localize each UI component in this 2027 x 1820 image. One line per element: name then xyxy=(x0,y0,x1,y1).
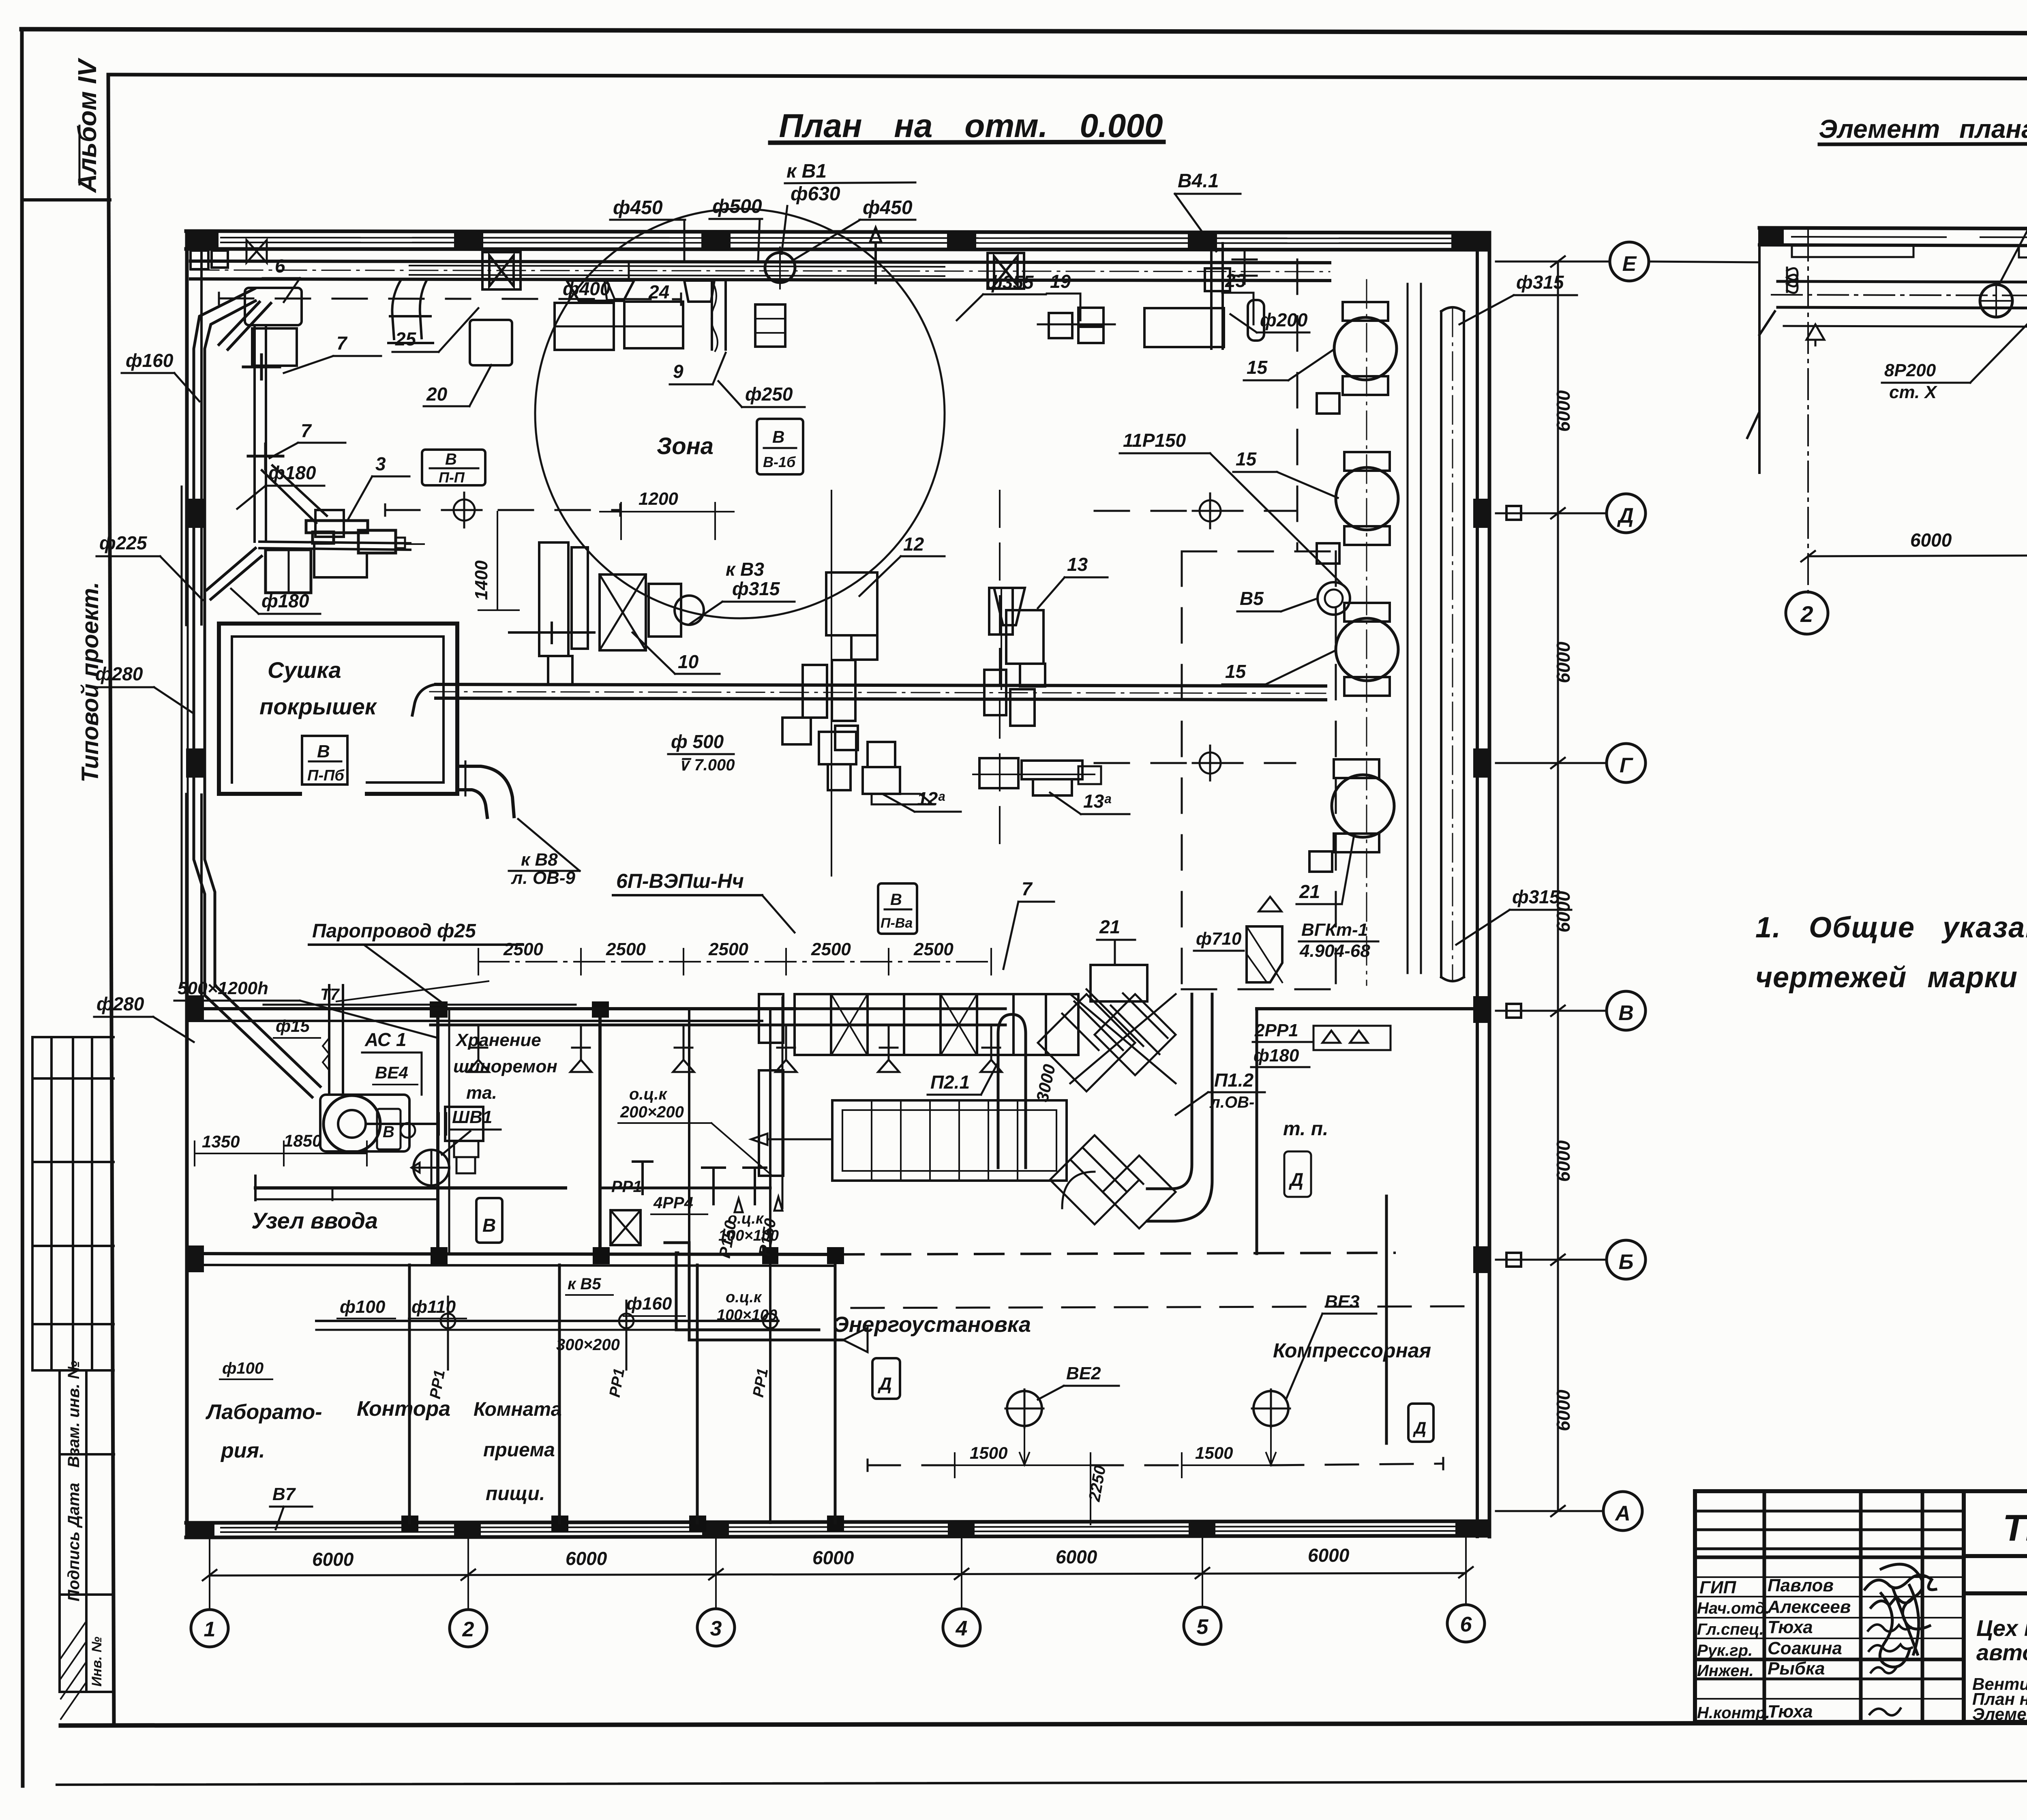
svg-text:10: 10 xyxy=(678,651,699,672)
connector from axis E xyxy=(1649,262,1759,262)
dashed vertical near right wall xyxy=(1296,259,1298,551)
right wall xyxy=(1476,233,1479,1537)
svg-text:План на отм. 0.000: План на отм. 0.000 xyxy=(779,107,1163,144)
svg-text:П2.1: П2.1 xyxy=(930,1072,970,1093)
dim row 2500s xyxy=(478,961,991,963)
svg-text:Хранение: Хранение xyxy=(455,1030,541,1050)
svg-text:Д: Д xyxy=(1413,1418,1426,1437)
svg-text:15: 15 xyxy=(1247,357,1268,378)
svg-text:9: 9 xyxy=(673,361,684,382)
svg-text:В: В xyxy=(383,1123,394,1141)
circle f630 xyxy=(765,253,795,283)
svg-text:6000: 6000 xyxy=(1056,1546,1097,1567)
svg-text:25: 25 xyxy=(395,328,417,349)
2RR1 unit xyxy=(1251,1020,1391,1067)
left outer border xyxy=(22,29,23,1786)
top outer border xyxy=(21,29,2027,34)
svg-text:В-1б: В-1б xyxy=(763,454,796,470)
svg-text:6000: 6000 xyxy=(1553,641,1574,683)
small rooms with x-box xyxy=(556,1085,868,1354)
svg-text:Сушка: Сушка xyxy=(268,657,341,683)
dashed midline lower band xyxy=(868,1464,955,1466)
svg-text:21: 21 xyxy=(1099,916,1120,937)
svg-text:В5: В5 xyxy=(1240,588,1264,609)
svg-text:Е: Е xyxy=(1622,252,1637,276)
svg-text:к В8: к В8 xyxy=(521,850,558,870)
risers РР1 at partitions xyxy=(441,1297,778,1370)
axis bubbles xyxy=(1786,590,2027,634)
svg-text:л.ОВ-: л.ОВ- xyxy=(1209,1093,1254,1111)
inner riser duct xyxy=(253,328,256,542)
svg-text:В: В xyxy=(445,450,457,468)
svg-text:к В1: к В1 xyxy=(786,161,827,182)
duct jog center xyxy=(665,1243,843,1340)
svg-text:пищи.: пищи. xyxy=(486,1483,545,1505)
svg-text:6000: 6000 xyxy=(1308,1545,1350,1566)
svg-text:к В5: к В5 xyxy=(568,1275,601,1293)
left elbow into hall xyxy=(392,281,426,339)
svg-text:Цех по ремонту: Цех по ремонту xyxy=(1976,1615,2027,1641)
svg-text:В: В xyxy=(317,742,330,761)
upper cell row xyxy=(795,994,1078,1055)
svg-text:ф630: ф630 xyxy=(791,183,840,205)
svg-text:рия.: рия. xyxy=(220,1439,265,1462)
svg-text:2: 2 xyxy=(1800,601,1813,627)
small vertical arrow at 2160 wall xyxy=(870,228,881,283)
labels above xyxy=(563,161,1308,330)
svg-text:В4.1: В4.1 xyxy=(1178,170,1219,192)
svg-text:покрышек: покрышек xyxy=(259,694,377,719)
svg-text:В7: В7 xyxy=(272,1484,296,1504)
svg-text:6: 6 xyxy=(275,255,285,277)
svg-text:ВЕ3: ВЕ3 xyxy=(1325,1292,1360,1312)
svg-text:Лаборато-: Лаборато- xyxy=(205,1400,322,1424)
svg-text:ф280: ф280 xyxy=(95,663,143,684)
upper stamp table xyxy=(32,1037,114,1370)
svg-text:ГИП: ГИП xyxy=(1699,1578,1737,1597)
svg-text:ф450: ф450 xyxy=(613,197,663,219)
duct with drops xyxy=(431,1008,1005,1010)
svg-text:2500: 2500 xyxy=(503,939,543,959)
svg-text:2500: 2500 xyxy=(811,939,851,959)
svg-text:4РР4: 4РР4 xyxy=(653,1194,693,1212)
khranenie room xyxy=(411,1030,557,1243)
svg-text:ф200: ф200 xyxy=(1260,309,1308,330)
window sill rects on wall xyxy=(1792,246,1913,257)
transitions xyxy=(604,261,629,300)
svg-text:6000: 6000 xyxy=(312,1549,354,1570)
svg-text:ф280: ф280 xyxy=(96,993,144,1014)
svg-text:Элемент плана на отм. 5.800: Элемент плана на отм. 5.800 xyxy=(1819,114,2027,144)
page bottom edge line xyxy=(57,1781,2027,1785)
item 23 xyxy=(1144,308,1224,347)
vertical partitions upper room band xyxy=(436,1009,439,1254)
tag В/В-1б xyxy=(757,419,803,474)
top wall outer xyxy=(186,231,1489,233)
svg-text:ф 500: ф 500 xyxy=(671,731,724,752)
svg-text:ф450: ф450 xyxy=(863,197,913,219)
diagonal branch to item 3 xyxy=(207,548,261,599)
svg-text:1200: 1200 xyxy=(639,489,678,509)
svg-text:ф400: ф400 xyxy=(563,278,611,299)
note xyxy=(1755,911,2027,994)
AC1 fan unit xyxy=(320,1095,409,1151)
tag В/П-П xyxy=(422,450,485,486)
album cell divider xyxy=(22,198,110,202)
svg-text:ф315: ф315 xyxy=(732,578,780,599)
vertical dim line xyxy=(1557,262,1559,1511)
svg-text:к В3: к В3 xyxy=(726,559,764,580)
svg-text:6000: 6000 xyxy=(812,1547,854,1568)
left side boxes of chamber xyxy=(759,994,783,1043)
tag В/П-Ва xyxy=(878,883,917,934)
building walls xyxy=(186,231,1490,1538)
svg-text:та.: та. xyxy=(466,1083,497,1103)
svg-text:2500: 2500 xyxy=(606,939,646,959)
svg-text:Комната: Комната xyxy=(474,1399,562,1420)
svg-text:Б: Б xyxy=(1619,1250,1634,1274)
svg-text:19: 19 xyxy=(1050,271,1071,292)
svg-text:ф160: ф160 xyxy=(626,1294,672,1314)
svg-text:100×100: 100×100 xyxy=(718,1227,779,1244)
svg-text:ф100: ф100 xyxy=(340,1297,386,1317)
top wall window lines xyxy=(221,238,1463,238)
svg-text:1400: 1400 xyxy=(471,560,491,600)
svg-text:приема: приема xyxy=(483,1439,555,1461)
sushka room xyxy=(219,624,580,888)
svg-text:В: В xyxy=(482,1215,496,1236)
svg-text:1. Общие указания и ведомость: 1. Общие указания и ведомость xyxy=(1755,911,2027,944)
svg-text:ВЕ4: ВЕ4 xyxy=(375,1063,408,1082)
svg-text:АС 1: АС 1 xyxy=(364,1029,407,1050)
svg-text:6000: 6000 xyxy=(1553,1140,1574,1182)
axis bubbles xyxy=(191,1605,1485,1647)
svg-text:2РР1: 2РР1 xyxy=(1254,1020,1298,1040)
svg-text:200×200: 200×200 xyxy=(620,1103,684,1121)
svg-text:Узел ввода: Узел ввода xyxy=(251,1208,378,1233)
fan bowtie left xyxy=(489,255,514,286)
inner frame top xyxy=(108,75,2027,79)
top wall piers xyxy=(186,231,1489,251)
svg-text:15: 15 xyxy=(1225,661,1247,682)
B tag box xyxy=(476,1198,502,1243)
svg-text:1350: 1350 xyxy=(202,1132,240,1151)
svg-text:ф250: ф250 xyxy=(745,384,793,405)
svg-text:ф15: ф15 xyxy=(276,1016,310,1035)
svg-text:500×1200h: 500×1200h xyxy=(178,978,268,998)
right fan column xyxy=(1120,272,1577,1067)
svg-text:20: 20 xyxy=(426,384,448,405)
svg-text:ф160: ф160 xyxy=(126,350,174,371)
svg-text:6000: 6000 xyxy=(1553,891,1574,933)
bottom axes xyxy=(191,1536,1485,1647)
svg-text:Подпись Дата: Подпись Дата xyxy=(65,1483,83,1601)
svg-text:Н.контр.: Н.контр. xyxy=(1697,1704,1770,1722)
svg-text:В: В xyxy=(890,891,902,909)
spring symbol xyxy=(1787,268,1798,293)
svg-text:Рыбка: Рыбка xyxy=(1768,1659,1825,1679)
svg-text:ф180: ф180 xyxy=(268,462,316,483)
vertical duct right of chamber xyxy=(1147,994,1192,1189)
svg-text:ф710: ф710 xyxy=(1196,929,1242,949)
svg-text:П-П: П-П xyxy=(439,469,465,486)
svg-text:В: В xyxy=(1618,1001,1634,1025)
top duct band xyxy=(191,161,1330,351)
sidebar right edge xyxy=(108,75,114,1723)
dimension line xyxy=(210,1573,1466,1576)
svg-text:А: А xyxy=(1614,1502,1631,1525)
rect 20 xyxy=(470,320,512,365)
title block xyxy=(1695,1366,2027,1724)
tall rounded duct xyxy=(998,1014,1026,1168)
fan bowtie mid xyxy=(994,256,1018,285)
item 19 xyxy=(1049,313,1072,338)
BE2 BE3 xyxy=(1007,1391,1042,1426)
T7 steam pipe xyxy=(264,1004,576,1006)
bottom rooms xyxy=(205,1292,1443,1529)
svg-text:6000: 6000 xyxy=(566,1548,607,1569)
lower central vent chamber xyxy=(751,989,1328,1228)
svg-text:7: 7 xyxy=(301,420,312,441)
svg-text:300×200: 300×200 xyxy=(556,1336,620,1354)
svg-text:6000: 6000 xyxy=(1553,1389,1574,1431)
svg-text:Д: Д xyxy=(877,1374,892,1394)
signature squiggles xyxy=(1865,1564,1936,1667)
bottom wall xyxy=(186,1521,1489,1523)
titles xyxy=(770,107,2027,144)
machines 12 13 xyxy=(819,491,1129,876)
svg-text:о.ц.к: о.ц.к xyxy=(726,1289,762,1306)
vertical duct drop boxes xyxy=(755,304,785,347)
svg-text:Д: Д xyxy=(1288,1169,1303,1190)
top wall band xyxy=(1759,228,2027,229)
svg-text:ст. Х: ст. Х xyxy=(1889,382,1937,402)
svg-text:6000: 6000 xyxy=(1553,390,1574,432)
6П-ВЭПш assembly xyxy=(174,870,1147,1072)
room inner walls xyxy=(255,1186,566,1190)
break zigzags xyxy=(1747,229,1775,473)
svg-text:1: 1 xyxy=(204,1618,216,1641)
support triangles xyxy=(1806,324,1824,345)
axis verticals dash-dot xyxy=(1808,230,2027,593)
svg-text:7: 7 xyxy=(336,332,348,354)
bottom dim line xyxy=(1808,555,2027,556)
svg-text:Инв. №: Инв. № xyxy=(89,1637,105,1687)
svg-text:В: В xyxy=(772,427,784,446)
sidebar xyxy=(22,57,114,1723)
svg-text:1500: 1500 xyxy=(1195,1443,1233,1462)
X hatch diamonds xyxy=(1038,989,1176,1228)
unit 10 xyxy=(471,489,795,684)
duct run xyxy=(1778,281,2027,283)
right axes xyxy=(1496,242,1649,1531)
vertical ducts right xyxy=(1440,311,1442,977)
drop at 1765 xyxy=(711,281,713,349)
machines 24 xyxy=(555,303,614,350)
svg-text:Рук.гр.: Рук.гр. xyxy=(1697,1642,1753,1659)
svg-text:ф100: ф100 xyxy=(222,1359,264,1377)
svg-text:Компрессорная: Компрессорная xyxy=(1273,1339,1431,1362)
svg-text:15: 15 xyxy=(1236,448,1257,469)
uzel vvoda room xyxy=(195,981,689,1366)
riser B4.1 xyxy=(1205,243,1257,349)
svg-text:Г: Г xyxy=(1620,754,1633,777)
svg-text:Павлов: Павлов xyxy=(1768,1576,1834,1595)
svg-text:Энергоустановка: Энергоустановка xyxy=(833,1312,1031,1337)
svg-text:13ᵃ: 13ᵃ xyxy=(1083,791,1111,812)
svg-text:6: 6 xyxy=(1460,1613,1472,1636)
svg-text:П1.2: П1.2 xyxy=(1214,1070,1253,1091)
svg-text:ТП 405-7-4.86: ТП 405-7-4.86 xyxy=(2003,1507,2027,1549)
svg-text:ф225: ф225 xyxy=(99,532,148,553)
lower stamp column xyxy=(60,1361,114,1719)
svg-text:о.ц.к: о.ц.к xyxy=(629,1085,668,1103)
svg-text:Тюха: Тюха xyxy=(1768,1702,1813,1721)
svg-text:Тюха: Тюха xyxy=(1768,1617,1813,1637)
13a cluster xyxy=(979,758,1018,788)
vertical pipe from left duct into AC1 xyxy=(328,985,330,1095)
svg-text:8Р200: 8Р200 xyxy=(1884,360,1936,380)
svg-text:Паропровод ф25: Паропровод ф25 xyxy=(312,920,476,942)
long gridded unit xyxy=(832,1100,1067,1181)
inner frame bottom xyxy=(61,1722,2027,1726)
svg-text:13: 13 xyxy=(1067,554,1088,575)
dashed enclosure right xyxy=(1182,551,1336,989)
svg-text:Альбом IV: Альбом IV xyxy=(73,57,102,193)
svg-text:Элемент плана на отм. 5.800.: Элемент плана на отм. 5.800. xyxy=(1972,1704,2027,1724)
crosshair symbols xyxy=(447,493,1228,780)
svg-text:3: 3 xyxy=(375,453,386,474)
svg-text:П-Ва: П-Ва xyxy=(881,915,913,931)
elbow with hatch bottom xyxy=(1247,926,1282,982)
interior wall axis Б level xyxy=(187,1254,835,1254)
fan circle kV2 xyxy=(1980,285,2012,317)
svg-text:2: 2 xyxy=(462,1618,474,1641)
svg-text:4.904-68: 4.904-68 xyxy=(1299,941,1370,961)
svg-text:21: 21 xyxy=(1299,881,1320,902)
svg-text:12ᵃ: 12ᵃ xyxy=(917,788,945,809)
elbow out right xyxy=(457,766,514,817)
svg-text:шиноремон: шиноремон xyxy=(453,1057,557,1076)
svg-text:Зона: Зона xyxy=(657,433,714,459)
svg-text:12: 12 xyxy=(903,534,924,555)
svg-text:Соакина: Соакина xyxy=(1768,1638,1842,1658)
crossing boxes at 12 column xyxy=(803,665,827,718)
machine 3 xyxy=(259,453,424,593)
svg-text:Инжен.: Инжен. xyxy=(1697,1662,1754,1680)
svg-text:Взам. инв. №: Взам. инв. № xyxy=(65,1361,83,1468)
svg-text:автомобильных шин.: автомобильных шин. xyxy=(1976,1640,2027,1665)
svg-text:т. п.: т. п. xyxy=(1283,1118,1328,1140)
svg-text:4: 4 xyxy=(956,1617,968,1640)
svg-text:Алексеев: Алексеев xyxy=(1767,1597,1851,1617)
svg-text:1500: 1500 xyxy=(970,1443,1007,1462)
svg-text:о.ц.к: о.ц.к xyxy=(728,1210,764,1227)
interior wall axis B level xyxy=(187,1007,795,1010)
vertical partitions lower room band xyxy=(408,1265,411,1523)
crossing at 13 column xyxy=(984,670,1006,715)
f200 riser xyxy=(1248,300,1264,341)
item 6 xyxy=(245,288,302,325)
svg-text:Д: Д xyxy=(1617,504,1634,527)
svg-text:ВЕ2: ВЕ2 xyxy=(1066,1363,1101,1383)
svg-text:ф355: ф355 xyxy=(986,272,1034,293)
svg-text:ф180: ф180 xyxy=(1253,1046,1299,1065)
svg-text:2500: 2500 xyxy=(913,939,954,959)
item 7 second with cross fitting xyxy=(248,444,283,469)
main stamp xyxy=(1964,1491,2027,1724)
wall tie marks xyxy=(1506,506,1521,1267)
svg-text:ВГКт-1: ВГКт-1 xyxy=(1301,920,1368,940)
f100 f110 f160 duct run xyxy=(316,1320,778,1322)
svg-text:Нач.отд.: Нач.отд. xyxy=(1697,1599,1770,1617)
svg-text:23: 23 xyxy=(1225,270,1246,291)
svg-text:ШВ1: ШВ1 xyxy=(452,1107,492,1127)
svg-text:Контора: Контора xyxy=(357,1397,450,1421)
junction piers xyxy=(401,1001,844,1532)
svg-text:Гл.спец.: Гл.спец. xyxy=(1697,1621,1764,1638)
zone circle xyxy=(535,209,945,618)
svg-text:6000: 6000 xyxy=(1910,529,1952,551)
dashed datum lines xyxy=(219,259,1336,989)
svg-text:6П-ВЭПш-Нч: 6П-ВЭПш-Нч xyxy=(616,870,744,892)
dims 1200 / 1400 xyxy=(620,503,622,539)
svg-text:РР1: РР1 xyxy=(611,1178,642,1196)
left exterior duct xyxy=(92,289,803,1097)
machines row 1 xyxy=(191,240,1264,542)
B5 xyxy=(1318,582,1350,615)
T-symbols row xyxy=(702,1168,725,1204)
svg-text:чертежей марки ОВ приведены на: чертежей марки ОВ приведены на л. 1÷4. xyxy=(1755,961,2027,994)
svg-text:3: 3 xyxy=(710,1617,722,1640)
long duct f500 xyxy=(412,660,1326,774)
corner blocks xyxy=(191,251,208,269)
svg-text:2500: 2500 xyxy=(708,939,748,959)
svg-text:11Р150: 11Р150 xyxy=(1123,430,1186,451)
main plan xyxy=(92,161,1649,1647)
12a cluster xyxy=(819,732,856,764)
element plan xyxy=(1649,178,2027,634)
svg-text:П-Пб: П-Пб xyxy=(307,767,345,784)
svg-text:⊽ 7.000: ⊽ 7.000 xyxy=(678,756,735,774)
names table xyxy=(1695,1491,1964,1722)
item 7 cross xyxy=(243,355,280,379)
svg-text:7: 7 xyxy=(1022,878,1033,899)
svg-text:ф500: ф500 xyxy=(712,196,762,217)
left wall xyxy=(185,231,189,624)
svg-text:1850: 1850 xyxy=(284,1131,321,1150)
svg-text:5: 5 xyxy=(1197,1615,1209,1639)
tag В/П-Пб xyxy=(302,736,347,785)
top wall inner xyxy=(186,249,1489,250)
